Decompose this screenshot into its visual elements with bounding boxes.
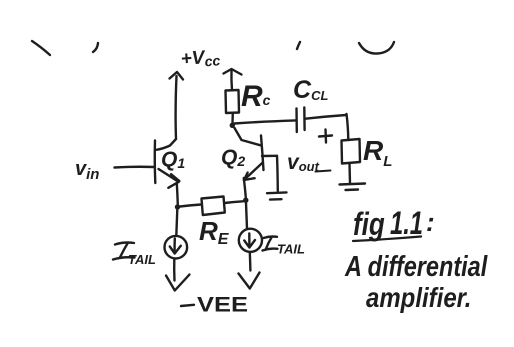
wire Q1 collector to +VCC with arrow [156, 72, 184, 150]
net -VEE label [181, 305, 194, 306]
node C (Rc / Q2 collector / CCL) [230, 123, 235, 128]
svg-text:TAIL: TAIL [277, 242, 305, 257]
wire node C to capacitor [235, 120, 296, 123]
wire Q1 emitter down to node A [177, 184, 178, 206]
caption fig 1.1: [353, 204, 435, 242]
label ITAIL left [115, 243, 134, 245]
svg-text:CCL: CCL [293, 76, 328, 104]
resistor RE [202, 197, 225, 216]
svg-text:Rc: Rc [241, 80, 271, 113]
node A [175, 204, 180, 209]
stray stroke smile curve [359, 42, 394, 54]
svg-text:vin: vin [75, 158, 99, 183]
arrowhead to -VEE right [239, 273, 260, 289]
wire node A to RE [180, 205, 201, 207]
resistor Rc [226, 90, 240, 113]
svg-text:amplifier.: amplifier. [366, 284, 471, 314]
svg-text:VEE: VEE [197, 294, 248, 317]
polarity plus sign [319, 130, 332, 143]
resistor RL [342, 139, 361, 164]
wire node B to right current source [246, 203, 247, 229]
arrowhead to -VEE left [166, 275, 190, 291]
label ITAIL right [264, 236, 278, 238]
stray stroke top-left [32, 41, 50, 55]
stray stroke comma [297, 42, 300, 49]
wire Rc top to +VCC with arrow [224, 69, 242, 90]
transistor Q2 [235, 128, 264, 180]
wire node A to left current source [176, 210, 177, 236]
svg-text:fig: fig [353, 206, 385, 242]
wire Q2 base to ground [262, 156, 278, 191]
node vout label [287, 151, 331, 174]
wire left source to -VEE arrow [173, 259, 176, 281]
wire Q2 emitter to node B [244, 178, 246, 198]
svg-text:Q1: Q1 [161, 148, 185, 171]
wire right source to -VEE arrow [249, 252, 252, 271]
wire capacitor to RL [306, 114, 349, 140]
svg-text:TAIL: TAIL [128, 252, 156, 267]
svg-text:A differential: A differential [344, 250, 488, 283]
svg-text:RL: RL [363, 135, 392, 170]
svg-text:vout: vout [287, 151, 320, 174]
wire vin to Q1 base [115, 166, 155, 169]
svg-text:+Vcc: +Vcc [180, 46, 221, 71]
svg-text:Q2: Q2 [221, 146, 245, 169]
transistor Q1 [155, 141, 180, 188]
svg-text::: : [426, 207, 435, 237]
ground (RL) [340, 184, 366, 191]
current source ITAIL right [239, 229, 262, 252]
net +VCC label [180, 46, 221, 71]
stray stroke tick [93, 43, 98, 52]
ground (Q2 base) [267, 192, 287, 199]
wire RE to node B [225, 201, 244, 203]
current source ITAIL left [165, 236, 188, 259]
wire RL to ground [348, 164, 351, 184]
svg-text:RE: RE [199, 216, 230, 248]
node B [243, 198, 248, 203]
wire Rc bottom to node [231, 113, 234, 123]
capacitor CCL [297, 108, 305, 133]
